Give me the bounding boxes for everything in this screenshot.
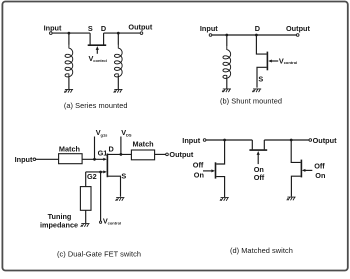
FET (d) right gate with arrow [302, 169, 313, 172]
junction (b) drain [255, 34, 258, 37]
svg-text:(c) Dual-Gate FET switch: (c) Dual-Gate FET switch [57, 249, 141, 258]
FET (d) right source lead [291, 176, 300, 196]
label Vcontrol (a) [89, 54, 107, 63]
wire Vds feed [120, 137, 122, 155]
junction (a) left [68, 32, 71, 35]
resistor tuning impedance [80, 172, 91, 223]
circuit (b): node Input [200, 24, 218, 36]
svg-text:S: S [88, 24, 93, 33]
svg-text:D: D [255, 24, 260, 33]
svg-text:Off: Off [193, 161, 204, 170]
FET (d) right shunt: drain lead [291, 140, 300, 162]
node Output (c) [166, 150, 194, 159]
svg-text:DS: DS [126, 132, 132, 137]
node Output (b) [286, 24, 310, 36]
junction Vcontrol (c) [99, 171, 102, 174]
svg-text:(b) Shunt mounted: (b) Shunt mounted [220, 97, 282, 106]
FET (b) source lead [257, 67, 267, 87]
svg-text:G2: G2 [87, 172, 97, 181]
svg-text:S: S [258, 75, 263, 84]
ground (b) FET [252, 89, 261, 92]
FET (d) right channel bar [300, 160, 302, 178]
svg-text:(a) Series mounted: (a) Series mounted [64, 101, 128, 110]
ground (c) source [116, 198, 125, 201]
svg-text:On: On [194, 170, 204, 179]
ground (c) resistor [81, 224, 90, 227]
svg-text:On: On [315, 171, 325, 180]
svg-text:Match: Match [59, 145, 80, 154]
FET (c) G2 arrow [103, 170, 107, 173]
svg-text:D: D [109, 144, 114, 153]
wire series FET to output (d) [264, 139, 309, 141]
svg-text:control: control [284, 60, 298, 65]
svg-text:Input: Input [15, 155, 33, 164]
wire match1 to G1 [82, 158, 104, 160]
svg-text:impedance: impedance [40, 220, 78, 229]
FET (d) left shunt: drain lead [216, 140, 224, 164]
svg-text:g1s: g1s [101, 132, 109, 137]
ground (a) left [64, 89, 73, 92]
svg-text:Input: Input [44, 24, 62, 33]
svg-text:Match: Match [133, 140, 154, 149]
G2 wire [86, 171, 104, 173]
svg-text:Output: Output [128, 23, 152, 32]
inductor (a) left shunt [65, 33, 73, 89]
FET (d) series channel bar [249, 149, 267, 151]
wire input to series FET (d) [206, 139, 252, 141]
FET (d) series gate with arrow [257, 151, 260, 164]
svg-text:G1: G1 [98, 149, 108, 158]
wire input to S stub [52, 32, 90, 34]
FET (b) gate with arrow [268, 60, 278, 63]
wire Vcontrol feed (c) [100, 172, 102, 221]
label Off/On (d) left [193, 161, 204, 180]
label Vcontrol (b) [279, 56, 297, 65]
junction Vg1s [93, 158, 96, 161]
svg-text:D: D [101, 24, 106, 33]
FET (c) source lead [107, 176, 120, 197]
label Vg1s [96, 128, 108, 137]
svg-text:Input: Input [182, 136, 200, 145]
junction (b) inductor [225, 34, 228, 37]
svg-text:Output: Output [286, 24, 310, 33]
wire input to match (c) [36, 158, 59, 160]
ground (a) right [114, 89, 123, 92]
svg-text:Off: Off [314, 161, 325, 170]
inductor (b) shunt [223, 35, 231, 89]
circuit (d): node Input [182, 136, 206, 145]
wire Vg1s feed [94, 137, 96, 160]
junction (a) right [117, 32, 120, 35]
junction (d) right [290, 139, 293, 142]
junction (d) left [223, 139, 226, 142]
label Tuning impedance [40, 212, 78, 230]
FET (d) left gate with arrow [203, 169, 215, 172]
junction Vds [120, 153, 123, 156]
ground (d) left [220, 198, 229, 201]
svg-text:Off: Off [254, 173, 265, 182]
circuit (a): node Input [44, 24, 62, 35]
svg-text:control: control [93, 58, 107, 63]
label On/Off (d) mid [254, 165, 265, 182]
svg-text:Output: Output [313, 136, 337, 145]
FET (c) drain wire to match2 [107, 153, 131, 155]
FET (b) channel bar [266, 52, 268, 71]
FET (a) channel bar [88, 44, 107, 46]
FET (a) gate with arrow [96, 46, 99, 54]
node Output (a) [128, 23, 152, 35]
transistor FET (a) series: S stub [89, 33, 91, 44]
svg-text:S: S [121, 172, 126, 181]
FET (c) dual-gate: G1 arrow [103, 158, 107, 161]
ground (b) inductor [222, 89, 231, 92]
FET (b) shunt: drain lead [256, 35, 266, 54]
FET (d) left source lead [216, 177, 224, 197]
inductor (a) right shunt [115, 33, 123, 89]
wire D to output (a) [104, 32, 141, 34]
label Off/On (d) right [314, 161, 325, 180]
FET (c) channel bar [106, 154, 108, 178]
circuit (c): node Input [15, 155, 36, 164]
svg-text:control: control [108, 220, 122, 225]
svg-text:(d) Matched switch: (d) Matched switch [230, 246, 293, 255]
match network box 1 [59, 154, 83, 164]
wire (b) main [212, 34, 297, 36]
wire match2 to output (c) [155, 153, 166, 155]
node Output (d) [309, 136, 337, 145]
match network box 2 [131, 150, 154, 160]
FET (a) D stub [103, 33, 105, 44]
node Vcontrol terminal (c) [100, 217, 122, 226]
svg-text:Output: Output [169, 150, 193, 159]
ground (d) right [287, 197, 296, 200]
label Vds [121, 128, 132, 137]
FET (d) left channel bar [215, 162, 217, 178]
svg-text:Input: Input [200, 24, 218, 33]
FET (d) series: stubs [252, 140, 264, 149]
